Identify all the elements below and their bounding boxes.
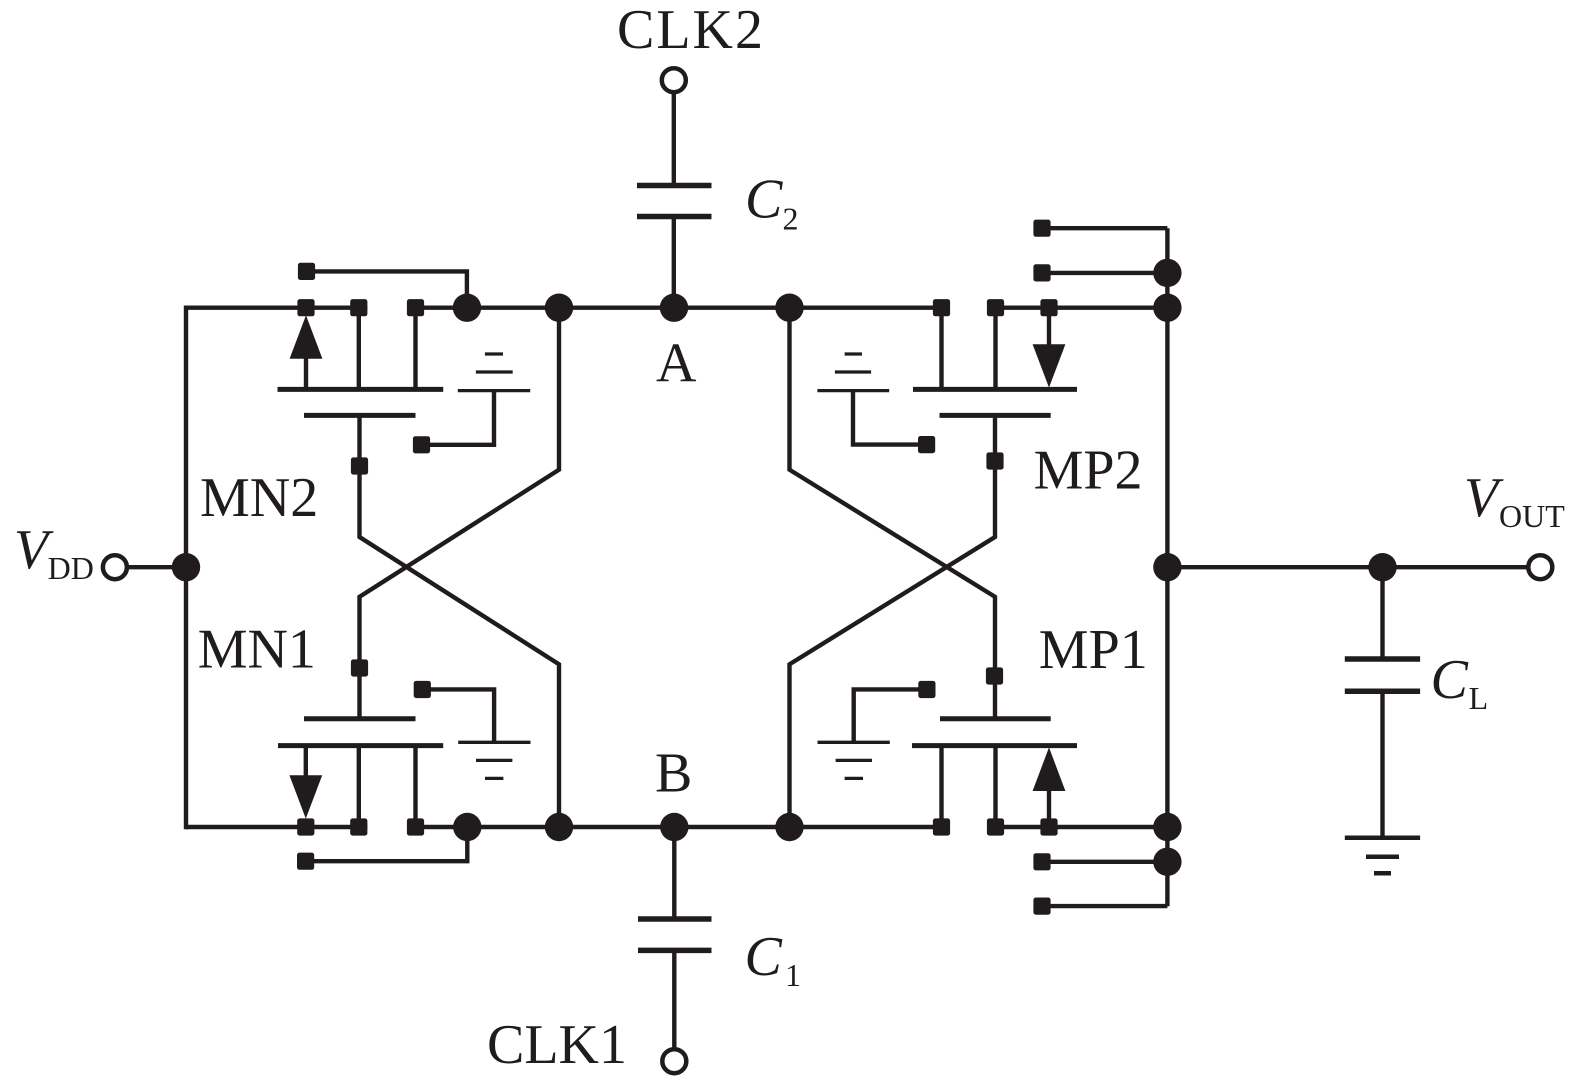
svg-text:A: A: [656, 333, 697, 395]
transistor MN2 gate bar: [304, 413, 416, 418]
wire MP2 gate lead cross-coupled to node B (right X, down-left diagonal): [790, 415, 996, 827]
transistor MP1 channel bar: [912, 743, 1077, 748]
wire C1 bottom plate down to CLK1 terminal: [672, 953, 676, 1049]
wire C2 bottom plate down to node A: [672, 219, 676, 308]
svg-text:C: C: [745, 926, 783, 988]
transistor MN1 source terminal square on node B bus: [297, 818, 314, 835]
transistor MP2 left terminal square on node A bus: [933, 299, 950, 316]
svg-text:2: 2: [783, 200, 799, 236]
transistor MN2 middle terminal stub: [357, 314, 361, 389]
wire MP2 upper contact square to right rail top corner: [1046, 226, 1167, 230]
right rail junction dot at node A: [1153, 294, 1181, 322]
transistor MP2 source stub (above arrow): [1047, 314, 1051, 350]
wire MN2 bulk-contact square to node A junction (top-left corner wire): [310, 271, 467, 305]
terminal VDD open circle: [103, 555, 127, 579]
transistor MN1 source arrow (pointing down): [289, 775, 322, 818]
transistor MN1 drain terminal stub: [413, 746, 417, 820]
VDD junction dot on left rail: [172, 553, 200, 581]
transistor MP2 left terminal stub: [939, 314, 943, 389]
transistor MN2 bulk contact square (top left): [298, 263, 315, 280]
wire node B bus middle segment (MN1 terminal to MP1 terminal through C1 tap): [407, 825, 950, 829]
wire right VOUT rail vertical with top and bottom corners: [1165, 228, 1169, 906]
MP2 substrate symbol stem and wire to bulk square: [853, 391, 920, 445]
svg-text:MP1: MP1: [1039, 619, 1148, 681]
wire node B bus right segment (MP1 terminals to right rail): [987, 825, 1167, 829]
MN1 substrate symbol bars (ladder): [458, 741, 530, 744]
node A junction dot (cross-couple tap to MN1 gate): [545, 294, 573, 322]
wire MN2 gate lead cross-coupled to node B (left X, down-right diagonal): [360, 415, 560, 827]
MP2 substrate symbol bars (inverted ladder): [845, 352, 862, 355]
transistor MN1 substrate-wire square: [414, 681, 431, 698]
svg-text:V: V: [1464, 467, 1504, 529]
ground symbol under CL: [1345, 836, 1420, 841]
transistor MN1 bulk contact square (bottom left): [297, 853, 314, 870]
MP1 substrate symbol stem and wire from bulk square: [854, 689, 920, 742]
transistor MP2 middle terminal square: [987, 299, 1004, 316]
capacitor CL top plate: [1345, 656, 1420, 662]
transistor MN2 middle terminal square: [350, 299, 367, 316]
transistor MP1 middle terminal stub: [993, 746, 997, 820]
right rail junction dot (MP1 lower contact): [1153, 848, 1181, 876]
svg-text:DD: DD: [48, 550, 94, 586]
MN1 substrate symbol stem and wire from bulk square: [429, 689, 494, 742]
transistor MP2 channel bar: [913, 387, 1077, 392]
wire CL top: VOUT node down to CL top plate: [1380, 567, 1384, 656]
svg-text:CLK1: CLK1: [487, 1014, 627, 1076]
transistor MN2 source stub (below arrow): [304, 352, 308, 389]
transistor MN2 drain terminal square: [407, 299, 424, 316]
wire node A bus left segment (VDD net: rail corner to MN2 drain/source squares): [186, 306, 367, 310]
node B junction dot (C1 tap): [660, 813, 688, 841]
wire VDD terminal to rail: [126, 565, 186, 569]
node B junction dot (cross-couple tap from MN2 gate): [545, 813, 573, 841]
transistor MN2 source terminal square on node A bus: [297, 299, 314, 316]
transistor MP1 gate bar: [940, 716, 1051, 721]
transistor MP1 lower contact square (row 2): [1033, 853, 1050, 870]
node B junction dot (MN1 drain tap): [453, 813, 481, 841]
svg-text:L: L: [1469, 680, 1489, 716]
transistor MN1 drain terminal square: [407, 818, 424, 835]
capacitor C2 bottom plate: [637, 214, 712, 220]
transistor MN2 substrate-wire square: [413, 436, 430, 453]
svg-text:OUT: OUT: [1499, 498, 1565, 534]
transistor MP2 upper contact square (row 1, top): [1033, 220, 1050, 237]
transistor MP2 substrate-wire square: [918, 436, 935, 453]
svg-text:C: C: [1431, 649, 1469, 711]
capacitor C1 bottom plate: [638, 948, 712, 954]
transistor MN1 gate bar: [304, 716, 416, 721]
right rail junction dot at VOUT branch: [1153, 553, 1181, 581]
MN2 substrate symbol bars (inverted ladder): [485, 352, 503, 355]
wire MP1 gate lead cross-coupled to node A (right X, up-left diagonal): [790, 308, 996, 719]
wire CLK2 terminal down to C2 top plate: [672, 93, 676, 184]
transistor MP1 substrate-wire square: [918, 681, 935, 698]
svg-text:CLK2: CLK2: [617, 0, 765, 61]
right rail junction dot (MP2 upper contact): [1153, 259, 1181, 287]
transistor MP2 upper contact square (row 2): [1033, 264, 1050, 281]
transistor MN2 gate lead square: [351, 457, 368, 474]
node A junction dot (MN2 drain tap): [453, 294, 481, 322]
transistor MP1 gate lead square: [986, 667, 1003, 684]
transistor MN2 source arrow (pointing up): [290, 315, 323, 359]
transistor MN1 middle terminal stub: [357, 746, 361, 820]
wire node A bus right segment (MP2 terminals to right rail): [987, 306, 1167, 310]
transistor MN1 middle terminal square: [350, 818, 367, 835]
transistor MN1 source stub (above arrow): [304, 746, 308, 782]
wire MP1 bottom contact square to right rail bottom corner: [1046, 904, 1167, 908]
transistor MP2 source arrow (pointing down): [1033, 344, 1066, 387]
wire VOUT output wire (rail to output terminal): [1167, 565, 1528, 569]
capacitor CL bottom plate: [1345, 689, 1420, 695]
svg-text:B: B: [655, 742, 692, 804]
svg-text:C: C: [745, 168, 783, 230]
transistor MP1 source arrow (pointing up): [1033, 747, 1066, 791]
transistor MP1 lower contact square (row 1, bottom): [1033, 898, 1050, 915]
node B junction dot (cross-couple tap from MP2 gate): [775, 813, 803, 841]
capacitor C1 top plate: [638, 916, 712, 922]
terminal VOUT open circle: [1528, 555, 1552, 579]
MN2 substrate symbol stem and wire to bulk square: [428, 391, 494, 445]
node A junction dot (cross-couple tap to MP1 gate): [775, 294, 803, 322]
wire node B bus left segment (VDD net: rail corner to MN1 squares): [186, 825, 367, 829]
wire MP1 lower contact square to right rail junction: [1046, 860, 1167, 864]
capacitor C2 top plate: [637, 183, 712, 189]
wire node B down to C1 top plate: [672, 827, 676, 917]
transistor MP2 gate lead square: [986, 452, 1003, 469]
transistor MP1 middle terminal square: [987, 818, 1004, 835]
transistor MP2 gate bar: [940, 413, 1051, 418]
transistor MP1 source terminal square: [1040, 818, 1057, 835]
svg-text:MN1: MN1: [198, 619, 316, 681]
node A junction dot (C2 tap): [660, 294, 688, 322]
transistor MP2 source terminal square: [1040, 299, 1057, 316]
transistor MN2 channel bar: [278, 387, 444, 392]
wire left VDD rail vertical (A bus corner down to B bus corner): [184, 306, 188, 830]
svg-text:1: 1: [785, 957, 801, 993]
VOUT junction dot at CL branch: [1368, 553, 1396, 581]
svg-text:MP2: MP2: [1034, 439, 1143, 501]
wire CL bottom plate down to ground: [1380, 694, 1384, 838]
transistor MP2 middle terminal stub: [993, 314, 997, 389]
transistor MP1 source stub (below arrow): [1047, 785, 1051, 820]
transistor MP1 left terminal square on node B bus: [933, 818, 950, 835]
transistor MN1 gate lead square: [351, 659, 368, 676]
right rail junction dot at node B: [1153, 813, 1181, 841]
MP1 substrate symbol bars (ladder): [818, 741, 890, 744]
wire MN1 gate lead cross-coupled to node A (left X, up-right diagonal): [360, 308, 560, 719]
wire node A bus middle segment (MN2 terminal to MP2 terminal through C2 tap): [407, 306, 950, 310]
svg-text:MN2: MN2: [200, 467, 318, 529]
transistor MN2 drain terminal stub: [413, 314, 417, 389]
transistor MP1 left terminal stub: [939, 746, 943, 820]
terminal CLK2 open circle: [662, 68, 686, 92]
wire MP2 second contact square to right rail junction: [1046, 271, 1167, 275]
wire MN1 bulk-contact square to node B junction (bottom-left corner wire): [310, 830, 467, 861]
terminal CLK1 open circle: [662, 1049, 686, 1073]
transistor MN1 channel bar: [278, 743, 443, 748]
